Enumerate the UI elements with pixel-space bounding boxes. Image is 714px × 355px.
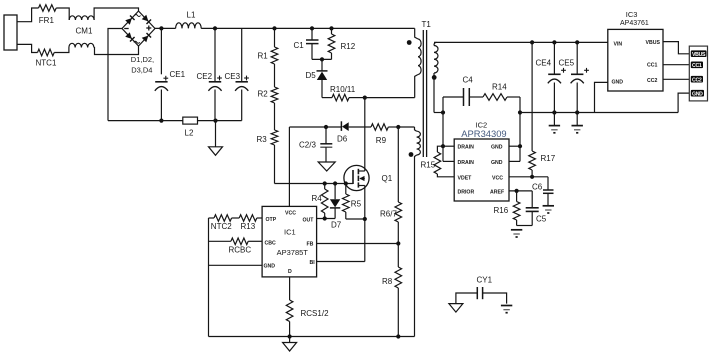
svg-text:R15: R15 (421, 161, 436, 170)
resistor RCS1/2 (286, 300, 329, 337)
wire IC3 GND (595, 82, 608, 112)
svg-text:R16: R16 (494, 206, 509, 215)
wire J1 to NTC1 (17, 44, 38, 52)
GND rail secondary (520, 110, 678, 114)
svg-text:R9: R9 (376, 136, 387, 145)
svg-text:D5: D5 (306, 71, 317, 80)
IC1 box (262, 206, 317, 277)
svg-text:D: D (288, 269, 292, 275)
resistor R14 (483, 83, 520, 101)
svg-text:CE3: CE3 (225, 72, 241, 81)
svg-text:FR1: FR1 (39, 16, 55, 25)
wire snubber right vertical (518, 97, 522, 161)
wire GND pins IC2 (509, 146, 520, 161)
inductor L2 (183, 117, 198, 137)
resistor R2 (258, 64, 278, 103)
resistor R3 (257, 103, 278, 184)
T1 aux winding (415, 127, 421, 337)
svg-text:AP43761: AP43761 (620, 20, 649, 27)
svg-text:GND: GND (612, 80, 624, 86)
svg-text:R6/7: R6/7 (380, 210, 397, 219)
wire GND pin (209, 264, 263, 266)
common-mode choke CM1 (69, 16, 94, 48)
wire primary bottom (365, 97, 415, 99)
resistor R6/7 (380, 127, 402, 246)
capacitor CE5 (559, 42, 589, 112)
svg-text:Q1: Q1 (382, 174, 393, 183)
svg-text:R8: R8 (382, 277, 393, 286)
T1 secondary winding (434, 42, 438, 112)
svg-text:D7: D7 (331, 221, 342, 230)
svg-text:C1: C1 (294, 41, 305, 50)
wire secondary bottom (434, 110, 445, 114)
wire bridge plus to L1 (155, 26, 176, 30)
resistor R4 (312, 184, 329, 219)
wire CM1 to bridge bottom (94, 46, 139, 55)
svg-text:R17: R17 (541, 154, 556, 163)
capacitor CE1 (155, 28, 186, 122)
wire C1 R12 junction (312, 57, 332, 61)
wire R9 to aux (398, 126, 414, 128)
svg-text:CBC: CBC (265, 240, 276, 246)
wire DRAIN2 (443, 160, 454, 162)
wire R5 to source (346, 218, 365, 220)
svg-text:D6: D6 (337, 135, 348, 144)
svg-text:DRIOR: DRIOR (458, 189, 475, 195)
capacitor CE3 (225, 28, 249, 120)
wire IC1 left vertical (208, 218, 210, 337)
transistor Q1 (344, 165, 393, 190)
fuse resistor FR1 (39, 5, 57, 25)
svg-text:VCC: VCC (285, 211, 296, 217)
svg-text:R12: R12 (341, 42, 356, 51)
svg-text:R3: R3 (257, 135, 268, 144)
resistor RCBC (229, 238, 252, 254)
svg-text:L2: L2 (185, 129, 194, 138)
svg-text:C6: C6 (532, 183, 543, 192)
T1 secondary phase dot (432, 75, 437, 80)
wire AREF (509, 189, 532, 193)
svg-text:VBUS: VBUS (646, 40, 661, 46)
ground R16 C5 (511, 230, 522, 237)
svg-text:VDET: VDET (458, 175, 473, 181)
wire BI (317, 261, 365, 263)
ground primary bulk (209, 121, 223, 156)
bottom rail right (198, 120, 242, 122)
svg-text:CE2: CE2 (197, 72, 213, 81)
svg-text:D3,D4: D3,D4 (131, 66, 152, 75)
resistor R17 (529, 40, 556, 177)
svg-text:CC1: CC1 (692, 63, 702, 69)
svg-text:CE1: CE1 (170, 70, 186, 79)
svg-text:R4: R4 (312, 194, 323, 203)
T1 primary winding (415, 28, 421, 97)
svg-text:VCC: VCC (492, 175, 503, 181)
svg-text:RCS1/2: RCS1/2 (301, 309, 330, 318)
svg-text:D1,D2,: D1,D2, (131, 55, 154, 64)
capacitor C2/3 (299, 127, 332, 162)
svg-text:FB: FB (307, 241, 314, 247)
IC3 box (608, 10, 663, 91)
thermistor NTC1 (36, 49, 57, 67)
wire NTC1 to CM1 (54, 48, 69, 53)
wire connector GND (678, 93, 689, 112)
svg-text:CC2: CC2 (647, 78, 657, 84)
USB-C output connector (689, 46, 707, 101)
wire gate (275, 181, 354, 185)
ground C2/3 (318, 162, 335, 171)
wire bridge minus to bottom rail (108, 29, 122, 121)
wire D pin (289, 277, 291, 300)
svg-text:NTC2: NTC2 (211, 222, 232, 231)
resistor R1 (258, 28, 278, 64)
wire VCC IC2 (509, 175, 548, 179)
wire OTP (209, 217, 263, 219)
capacitor CE2 (197, 28, 222, 122)
resistor R8 (382, 244, 402, 337)
bottom ground rail (209, 334, 415, 338)
wire Q1 source (363, 186, 367, 262)
wire OUT (317, 216, 336, 220)
svg-text:T1: T1 (422, 20, 432, 29)
resistor R9 (371, 124, 400, 145)
svg-text:R14: R14 (492, 83, 507, 92)
wire drain vertical (364, 98, 366, 171)
wire CC2 (663, 78, 689, 80)
svg-text:GND: GND (264, 264, 276, 270)
svg-text:C2/3: C2/3 (299, 141, 316, 150)
wire J1 to FR1 (17, 8, 39, 22)
svg-text:R5: R5 (351, 200, 362, 209)
svg-text:DRAIN: DRAIN (458, 145, 475, 151)
ground primary (283, 337, 297, 352)
capacitor C5 (526, 191, 547, 226)
svg-text:IC3: IC3 (626, 10, 638, 19)
svg-text:C4: C4 (463, 76, 474, 85)
T1 aux phase dot (409, 152, 414, 157)
resistor R16 (494, 191, 520, 226)
svg-text:RCBC: RCBC (229, 245, 252, 254)
diode D7 (330, 184, 342, 230)
svg-text:GND: GND (491, 145, 503, 151)
wire R16 C5 bottom (517, 225, 533, 227)
resistor R12 (328, 28, 356, 59)
svg-text:R10/11: R10/11 (330, 85, 356, 94)
wire VBUS out (663, 42, 689, 54)
svg-text:C5: C5 (536, 215, 547, 224)
wire FR1 to CM1 (56, 8, 69, 20)
capacitor CY1 (456, 276, 507, 304)
svg-text:APR34309: APR34309 (461, 128, 506, 139)
ground CE4 (549, 113, 560, 133)
svg-text:R2: R2 (258, 90, 269, 99)
wire VCC feed corner (288, 127, 290, 206)
svg-text:OTP: OTP (266, 217, 277, 223)
resistor R5 (343, 184, 362, 220)
diode D5 (306, 59, 328, 97)
bottom rail left (108, 120, 183, 122)
bridge rectifier D1-D4 (122, 11, 155, 46)
wire FB (317, 243, 399, 245)
AC input connector J1 (4, 15, 17, 50)
ground CY1 secondary (501, 306, 512, 313)
wire top rail L1 to transformer (201, 26, 415, 30)
svg-text:BI: BI (310, 260, 316, 266)
svg-text:GND: GND (491, 160, 503, 166)
wire V+ rail (434, 40, 608, 44)
capacitor CE4 (536, 42, 566, 112)
svg-text:DRAIN: DRAIN (458, 160, 475, 166)
ground CE5 (572, 113, 583, 133)
svg-text:VBUS: VBUS (692, 52, 706, 58)
svg-text:CE4: CE4 (536, 59, 552, 68)
inductor L1 (176, 11, 202, 29)
wire CM1 to bridge top (94, 8, 138, 20)
T1 primary phase dot (407, 40, 412, 45)
wire CC1 (663, 64, 689, 66)
IC2 box (454, 121, 509, 202)
svg-text:L1: L1 (187, 11, 196, 20)
T1 core (423, 30, 426, 157)
svg-text:NTC1: NTC1 (36, 59, 57, 68)
wire DRAIN1 (443, 145, 454, 147)
wire drain node vertical (441, 97, 445, 161)
wire aux rectifier (289, 125, 341, 129)
thermistor NTC2 (211, 215, 232, 231)
svg-text:IC1: IC1 (284, 228, 296, 237)
svg-text:CC1: CC1 (647, 63, 657, 69)
ground C6 (543, 206, 554, 213)
svg-text:AREF: AREF (490, 189, 504, 195)
ground CY1 primary (449, 304, 463, 313)
svg-text:CY1: CY1 (477, 276, 493, 285)
svg-text:CM1: CM1 (76, 27, 93, 36)
svg-text:CE5: CE5 (559, 59, 575, 68)
svg-text:R1: R1 (258, 52, 269, 61)
capacitor C6 (532, 177, 554, 206)
svg-text:AP3785T: AP3785T (277, 248, 309, 257)
capacitor C1 (294, 28, 319, 59)
resistor R15 (421, 146, 455, 177)
svg-text:VIN: VIN (614, 42, 623, 48)
svg-text:GND: GND (692, 91, 703, 97)
resistor R13 (239, 215, 257, 231)
svg-text:R13: R13 (241, 222, 256, 231)
svg-text:OUT: OUT (303, 217, 315, 223)
transformer T1 label (422, 20, 432, 29)
resistor R10/11 (322, 85, 367, 101)
diode D6 (337, 121, 371, 143)
capacitor C4 (443, 76, 483, 107)
svg-text:CC2: CC2 (692, 77, 702, 83)
wire CBC (209, 240, 263, 242)
label D1,D2, D3,D4 (131, 55, 154, 75)
